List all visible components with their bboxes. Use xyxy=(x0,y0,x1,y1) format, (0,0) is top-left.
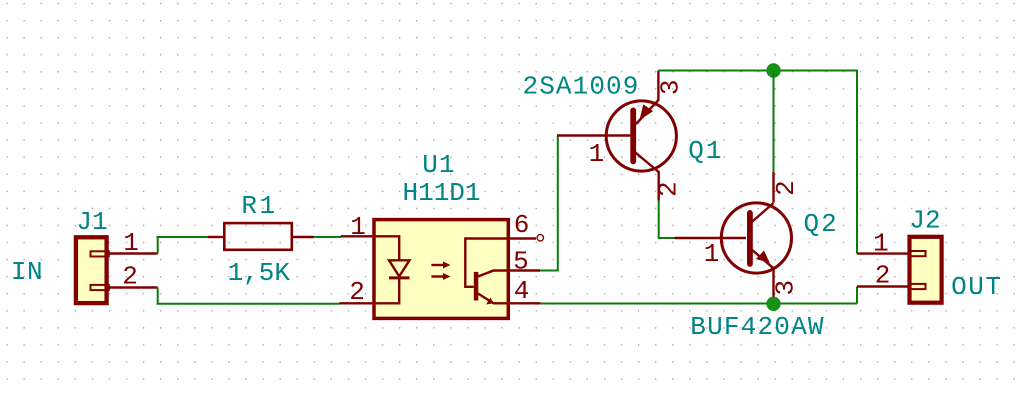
svg-text:Q1: Q1 xyxy=(688,136,723,166)
value H11D1 xyxy=(402,178,480,208)
resistor R1 xyxy=(208,223,314,250)
U1 pin 4 xyxy=(510,276,541,306)
J2 pin 1 xyxy=(857,229,909,259)
label Q1 xyxy=(688,136,723,166)
wire J1.1 riser xyxy=(157,237,159,254)
value BUF420AW xyxy=(690,312,824,342)
svg-text:IN: IN xyxy=(11,257,43,287)
value 1,5K xyxy=(228,258,291,288)
Q2 pin 2 number xyxy=(771,180,801,196)
optocoupler U1 body xyxy=(374,220,508,319)
label J1 xyxy=(76,207,107,237)
svg-text:1,5K: 1,5K xyxy=(228,258,291,288)
J1 pin 1 xyxy=(109,228,158,258)
svg-text:6: 6 xyxy=(514,210,530,240)
Q1 pin 3 number xyxy=(656,79,686,95)
svg-text:2SA1009: 2SA1009 xyxy=(523,72,640,102)
svg-text:J1: J1 xyxy=(76,207,107,237)
U1 pin 6 xyxy=(510,210,544,241)
svg-text:3: 3 xyxy=(770,280,800,296)
U1 pin 5 xyxy=(510,247,540,277)
svg-text:BUF420AW: BUF420AW xyxy=(690,312,824,342)
U1 pin 2 xyxy=(339,277,374,307)
wire bottom rail right xyxy=(541,303,857,305)
wire Q1 collector to Q2 base xyxy=(659,201,675,238)
Q2 pin 1 number xyxy=(704,239,720,269)
label R1 xyxy=(241,191,277,221)
wire top junction to Q2 collector xyxy=(773,71,775,173)
svg-text:U1: U1 xyxy=(422,150,455,180)
svg-text:1: 1 xyxy=(589,139,605,169)
transistor Q2 xyxy=(675,172,792,300)
svg-text:1: 1 xyxy=(123,228,139,258)
label Q2 xyxy=(803,209,838,239)
wire U1.5 to Q1 base xyxy=(540,136,558,271)
svg-text:1: 1 xyxy=(350,212,366,242)
U1 internal phototransistor xyxy=(465,239,510,305)
connector J1 xyxy=(76,237,109,303)
svg-text:2: 2 xyxy=(771,180,801,196)
U1 internal LED xyxy=(374,236,409,303)
net label OUT xyxy=(951,272,1002,302)
transistor Q1 xyxy=(557,71,676,201)
label J2 xyxy=(909,206,940,236)
wire R1 to U1.1 xyxy=(314,236,341,238)
label U1 xyxy=(422,150,455,180)
svg-text:1: 1 xyxy=(873,229,889,259)
J1 pin 2 xyxy=(109,262,158,292)
svg-text:1: 1 xyxy=(704,239,720,269)
Q1 pin 1 number xyxy=(589,139,605,169)
junction top xyxy=(766,63,780,77)
Q1 pin 2 number xyxy=(653,181,683,197)
svg-text:2: 2 xyxy=(653,181,683,197)
junction bottom xyxy=(766,297,780,311)
svg-text:R1: R1 xyxy=(241,191,277,221)
svg-text:2: 2 xyxy=(349,277,365,307)
wire bottom rail left xyxy=(157,303,340,305)
svg-text:5: 5 xyxy=(513,247,529,277)
U1 coupling arrows xyxy=(431,262,450,281)
wire bottom rail to J2.2 xyxy=(856,287,858,304)
svg-text:H11D1: H11D1 xyxy=(402,178,480,208)
wire J1.1 to R1 xyxy=(157,236,209,238)
net label IN xyxy=(11,257,43,287)
svg-text:2: 2 xyxy=(122,262,138,292)
svg-text:J2: J2 xyxy=(909,206,940,236)
svg-text:Q2: Q2 xyxy=(803,209,838,239)
label 2SA1009 xyxy=(523,72,640,102)
svg-text:2: 2 xyxy=(875,261,891,291)
wire J1.2 dropper xyxy=(157,288,159,304)
Q2 pin 3 number xyxy=(770,280,800,296)
wire top rail xyxy=(658,71,857,254)
J2 pin 2 xyxy=(857,261,909,291)
U1 pin 1 xyxy=(341,212,375,242)
connector J2 xyxy=(910,237,942,303)
svg-text:4: 4 xyxy=(514,276,530,306)
svg-text:OUT: OUT xyxy=(951,272,1002,302)
svg-text:3: 3 xyxy=(656,79,686,95)
